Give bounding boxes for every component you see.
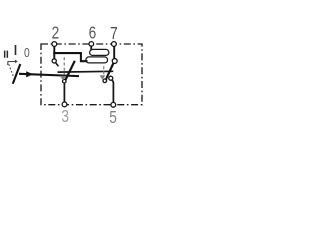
svg-text:3: 3 <box>61 107 69 126</box>
svg-text:5: 5 <box>109 108 117 127</box>
svg-text:7: 7 <box>110 25 118 44</box>
svg-text:0: 0 <box>24 47 30 60</box>
svg-text:6: 6 <box>89 24 97 43</box>
svg-text:2: 2 <box>52 24 60 43</box>
